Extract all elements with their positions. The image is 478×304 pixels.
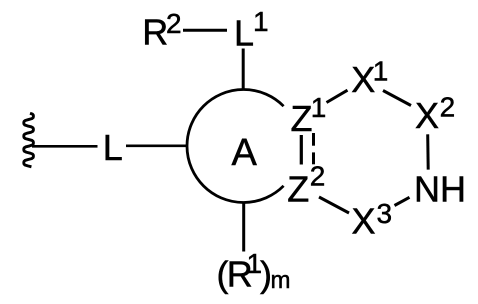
svg-text:2: 2: [310, 161, 326, 192]
svg-text:A: A: [232, 132, 258, 174]
svg-text:NH: NH: [414, 168, 466, 209]
svg-text:1: 1: [311, 92, 327, 123]
svg-text:Z: Z: [291, 98, 313, 139]
svg-text:1: 1: [253, 6, 269, 37]
svg-text:3: 3: [377, 198, 393, 229]
svg-text:2: 2: [440, 92, 456, 123]
svg-text:m: m: [271, 267, 291, 294]
svg-text:L: L: [103, 127, 123, 168]
svg-text:Z: Z: [287, 169, 309, 210]
svg-text:R: R: [142, 12, 168, 53]
svg-text:1: 1: [373, 56, 389, 87]
svg-text:2: 2: [166, 8, 182, 39]
svg-text:X: X: [352, 201, 376, 242]
svg-text:X: X: [415, 95, 439, 136]
svg-text:L: L: [234, 13, 254, 54]
